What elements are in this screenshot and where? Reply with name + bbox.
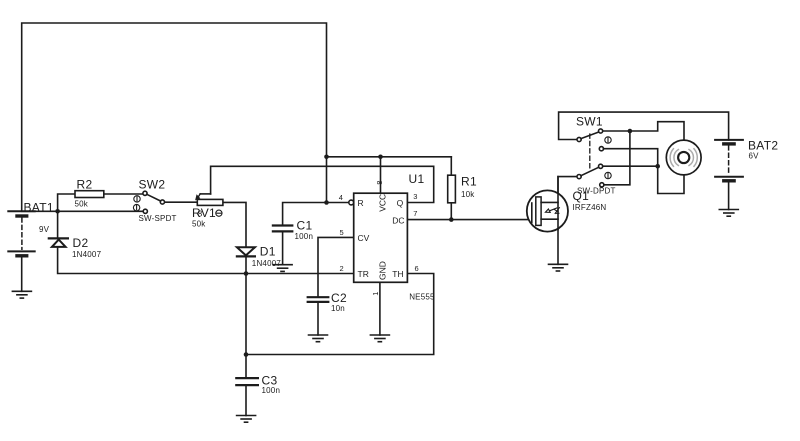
svg-text:Q: Q bbox=[397, 198, 404, 208]
ground below Q1 bbox=[549, 264, 568, 271]
wire Q output feedback to RV1 wiper bbox=[211, 166, 434, 202]
wire C1 bottom stub bbox=[282, 231, 284, 264]
svg-text:VCC: VCC bbox=[377, 194, 387, 212]
wire C3 node to TH pin 6 bbox=[246, 274, 434, 355]
wire SW1 throw1a to motor terminal 1 bbox=[603, 122, 684, 141]
transistor Q1 bbox=[527, 177, 568, 232]
wire CV pin 5 down to C2 bbox=[318, 237, 354, 297]
wire BAT1 plus up and over to VCC vertical bbox=[22, 23, 327, 211]
svg-text:GND: GND bbox=[377, 261, 387, 280]
wire VCC vertical down to pin4 node bbox=[326, 157, 328, 203]
capacitor C1 bbox=[273, 226, 292, 232]
wire DC pin7 to R1 and Q1 gate bbox=[407, 219, 531, 221]
svg-text:TR: TR bbox=[358, 269, 369, 279]
svg-text:8: 8 bbox=[198, 208, 203, 218]
wire R2 right to SW2 upper throw bbox=[104, 193, 143, 195]
ground below pin 1 bbox=[370, 335, 389, 342]
wire D2 bottom and TR rail to pin 2 bbox=[58, 247, 354, 274]
svg-text:R: R bbox=[358, 198, 364, 208]
node junction D1 on TR rail bbox=[244, 271, 249, 276]
capacitor C2 bbox=[308, 297, 329, 302]
node junction BAT1 plus bbox=[55, 209, 60, 214]
pin 4 inversion bubble bbox=[349, 200, 354, 205]
svg-text:10k: 10k bbox=[461, 190, 475, 199]
diode D1 bbox=[237, 247, 255, 256]
svg-text:8: 8 bbox=[375, 181, 384, 185]
svg-text:SW1: SW1 bbox=[576, 114, 603, 128]
wire SW1 throw2b cross link to throw1a bbox=[604, 131, 630, 185]
ground below C2 bbox=[309, 335, 328, 342]
svg-text:D2: D2 bbox=[73, 236, 89, 250]
svg-text:5: 5 bbox=[340, 228, 344, 237]
svg-text:SW2: SW2 bbox=[139, 178, 166, 192]
wire motor terminal 2 drop bbox=[658, 166, 684, 193]
node junction VCC rail left bbox=[324, 155, 329, 160]
svg-text:Q1: Q1 bbox=[573, 189, 590, 203]
wire SW1 pole 2 to Q1 drain bbox=[558, 177, 577, 193]
switch SW2 bbox=[133, 191, 164, 213]
wire SW1 pole 1 up over to BAT2 plus bbox=[559, 112, 729, 140]
motor M1 bbox=[666, 140, 701, 175]
resistor R2 bbox=[75, 191, 104, 198]
capacitor C3 bbox=[236, 378, 258, 385]
op-amp U1 NE555 body bbox=[354, 193, 408, 282]
svg-text:1: 1 bbox=[371, 292, 380, 296]
svg-text:1N4007: 1N4007 bbox=[72, 250, 102, 259]
resistor R1 bbox=[448, 175, 456, 203]
wire R1 bottom stub bbox=[450, 203, 452, 220]
wire D1 cathode to rail bbox=[245, 257, 247, 274]
node junction throw1a cross bbox=[628, 129, 633, 134]
svg-text:BAT2: BAT2 bbox=[748, 139, 778, 153]
wire R2 left and down to D2 bbox=[58, 194, 75, 238]
wire R1 top stub bbox=[450, 157, 452, 175]
svg-text:3: 3 bbox=[413, 192, 417, 201]
svg-text:50k: 50k bbox=[192, 220, 206, 229]
wire C1 top to pin 4 R bbox=[283, 203, 349, 226]
svg-text:R2: R2 bbox=[77, 178, 93, 192]
node junction VCC pin 8 bbox=[378, 155, 383, 160]
svg-text:9V: 9V bbox=[39, 225, 50, 234]
wire BAT1 plus horizontal to SW2 lower throw bbox=[22, 210, 144, 212]
switch SW1 bbox=[577, 129, 611, 187]
node junction motor terminal 2 bbox=[655, 164, 660, 169]
ground below BAT1 bbox=[12, 291, 31, 298]
svg-text:D1: D1 bbox=[260, 244, 276, 258]
ground below C3 bbox=[237, 416, 256, 423]
diode D2 bbox=[49, 238, 68, 247]
svg-text:100n: 100n bbox=[262, 386, 281, 395]
svg-text:C1: C1 bbox=[297, 218, 313, 232]
svg-text:BAT1: BAT1 bbox=[24, 201, 54, 215]
wire pin 1 GND stub bbox=[379, 282, 381, 335]
wire C3 top stub bbox=[245, 355, 247, 379]
svg-text:100n: 100n bbox=[295, 232, 314, 241]
battery BAT2 bbox=[715, 140, 743, 181]
svg-text:10n: 10n bbox=[331, 304, 345, 313]
svg-text:4: 4 bbox=[339, 193, 343, 202]
svg-text:2: 2 bbox=[340, 264, 344, 273]
svg-text:DC: DC bbox=[392, 215, 404, 225]
wire C3 bottom stub bbox=[245, 385, 247, 415]
ground below C1 bbox=[273, 265, 292, 272]
svg-text:IRFZ46N: IRFZ46N bbox=[573, 203, 607, 212]
svg-text:NE555: NE555 bbox=[409, 293, 435, 302]
svg-text:50k: 50k bbox=[75, 200, 89, 209]
wire SW1 throw1b to motor terminal 2 junction bbox=[604, 149, 658, 167]
svg-text:7: 7 bbox=[413, 209, 417, 218]
wire RV1 right down to D1 bbox=[223, 202, 246, 247]
wire BAT1 minus stub bbox=[21, 256, 23, 291]
svg-text:6V: 6V bbox=[749, 152, 760, 161]
node junction pin 4 bbox=[324, 200, 329, 205]
svg-text:SW-SPDT: SW-SPDT bbox=[139, 214, 177, 223]
svg-text:C2: C2 bbox=[331, 291, 347, 305]
battery BAT1 bbox=[8, 211, 34, 256]
node junction C3 TH bbox=[244, 352, 249, 357]
svg-text:CV: CV bbox=[358, 233, 370, 243]
ground below BAT2 bbox=[719, 210, 738, 217]
wire SW2 pole to RV1 left bbox=[164, 201, 197, 203]
wire C2 bottom stub bbox=[317, 302, 319, 335]
svg-text:U1: U1 bbox=[409, 172, 425, 186]
wire SW1 throw2a to motor terminal 2 junction bbox=[603, 165, 658, 167]
svg-text:TH: TH bbox=[392, 269, 403, 279]
wire VCC top rail bbox=[327, 156, 452, 158]
wire rail junction down to C3 node bbox=[245, 274, 247, 355]
svg-text:6: 6 bbox=[415, 264, 419, 273]
potentiometer RV1 bbox=[195, 194, 223, 216]
wire Q1 source to ground bbox=[557, 230, 559, 265]
svg-text:R1: R1 bbox=[461, 175, 477, 189]
wire pin 8 VCC drop bbox=[380, 157, 382, 193]
svg-text:RV1: RV1 bbox=[192, 206, 216, 220]
wire BAT2 minus stub bbox=[728, 181, 730, 210]
node junction R1 DC bbox=[449, 217, 454, 222]
svg-text:1N4007: 1N4007 bbox=[252, 259, 282, 268]
